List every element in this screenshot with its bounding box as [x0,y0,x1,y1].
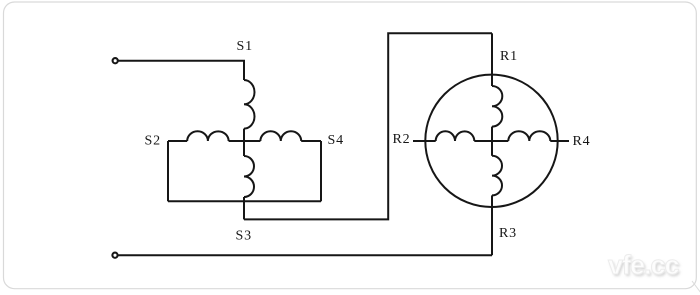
wire S3 to link riser [244,33,492,219]
coil R2 [436,131,475,141]
coil S2 [187,131,228,141]
wire left loop side [167,141,169,201]
svg-text:R2: R2 [393,132,411,147]
coil R3 [492,156,502,196]
wire S1 coil to stator junction [243,129,245,141]
wire R2 coil to center [474,140,492,142]
coil S3 [244,156,254,197]
wire S4 coil to right corner [301,140,321,142]
wire junction to S3 coil [243,141,245,156]
svg-text:S3: S3 [236,229,252,244]
wire center to R3 coil [491,141,493,156]
wire right loop side [320,141,322,201]
wire center to R4 coil [492,140,508,142]
coil R1 [492,86,502,127]
wire center junction to S4 coil [244,140,260,142]
terminal top-left [113,58,118,63]
svg-text:S4: S4 [328,133,344,148]
wire R2 stub [413,140,436,142]
svg-text:S2: S2 [145,134,161,149]
watermark vfe.cc [608,250,698,281]
wire bottom loop [168,200,321,202]
wire left bus segment [168,140,187,142]
wire rotor top to R1 coil [491,75,493,86]
svg-text:R4: R4 [573,134,591,149]
coil S4 [260,131,301,141]
wire R1 coil to rotor center [491,127,493,141]
coil R4 [508,131,550,141]
wire bottom return [118,254,492,256]
svg-text:R1: R1 [500,49,518,64]
wire S2 coil to center junction [229,140,244,142]
wire from top terminal to S1 corner [118,61,244,80]
terminal bottom-left [112,253,117,258]
wire R1 stub down to rotor [491,33,493,74]
svg-text:S1: S1 [237,39,253,54]
wire R4 stub [550,140,569,142]
rotor circle [425,75,557,207]
page curl bottom-right [692,281,700,293]
wire R3 down and out [491,195,493,255]
wire S3 output down [243,197,245,219]
svg-text:R3: R3 [499,226,517,241]
coil S1 [244,80,255,129]
